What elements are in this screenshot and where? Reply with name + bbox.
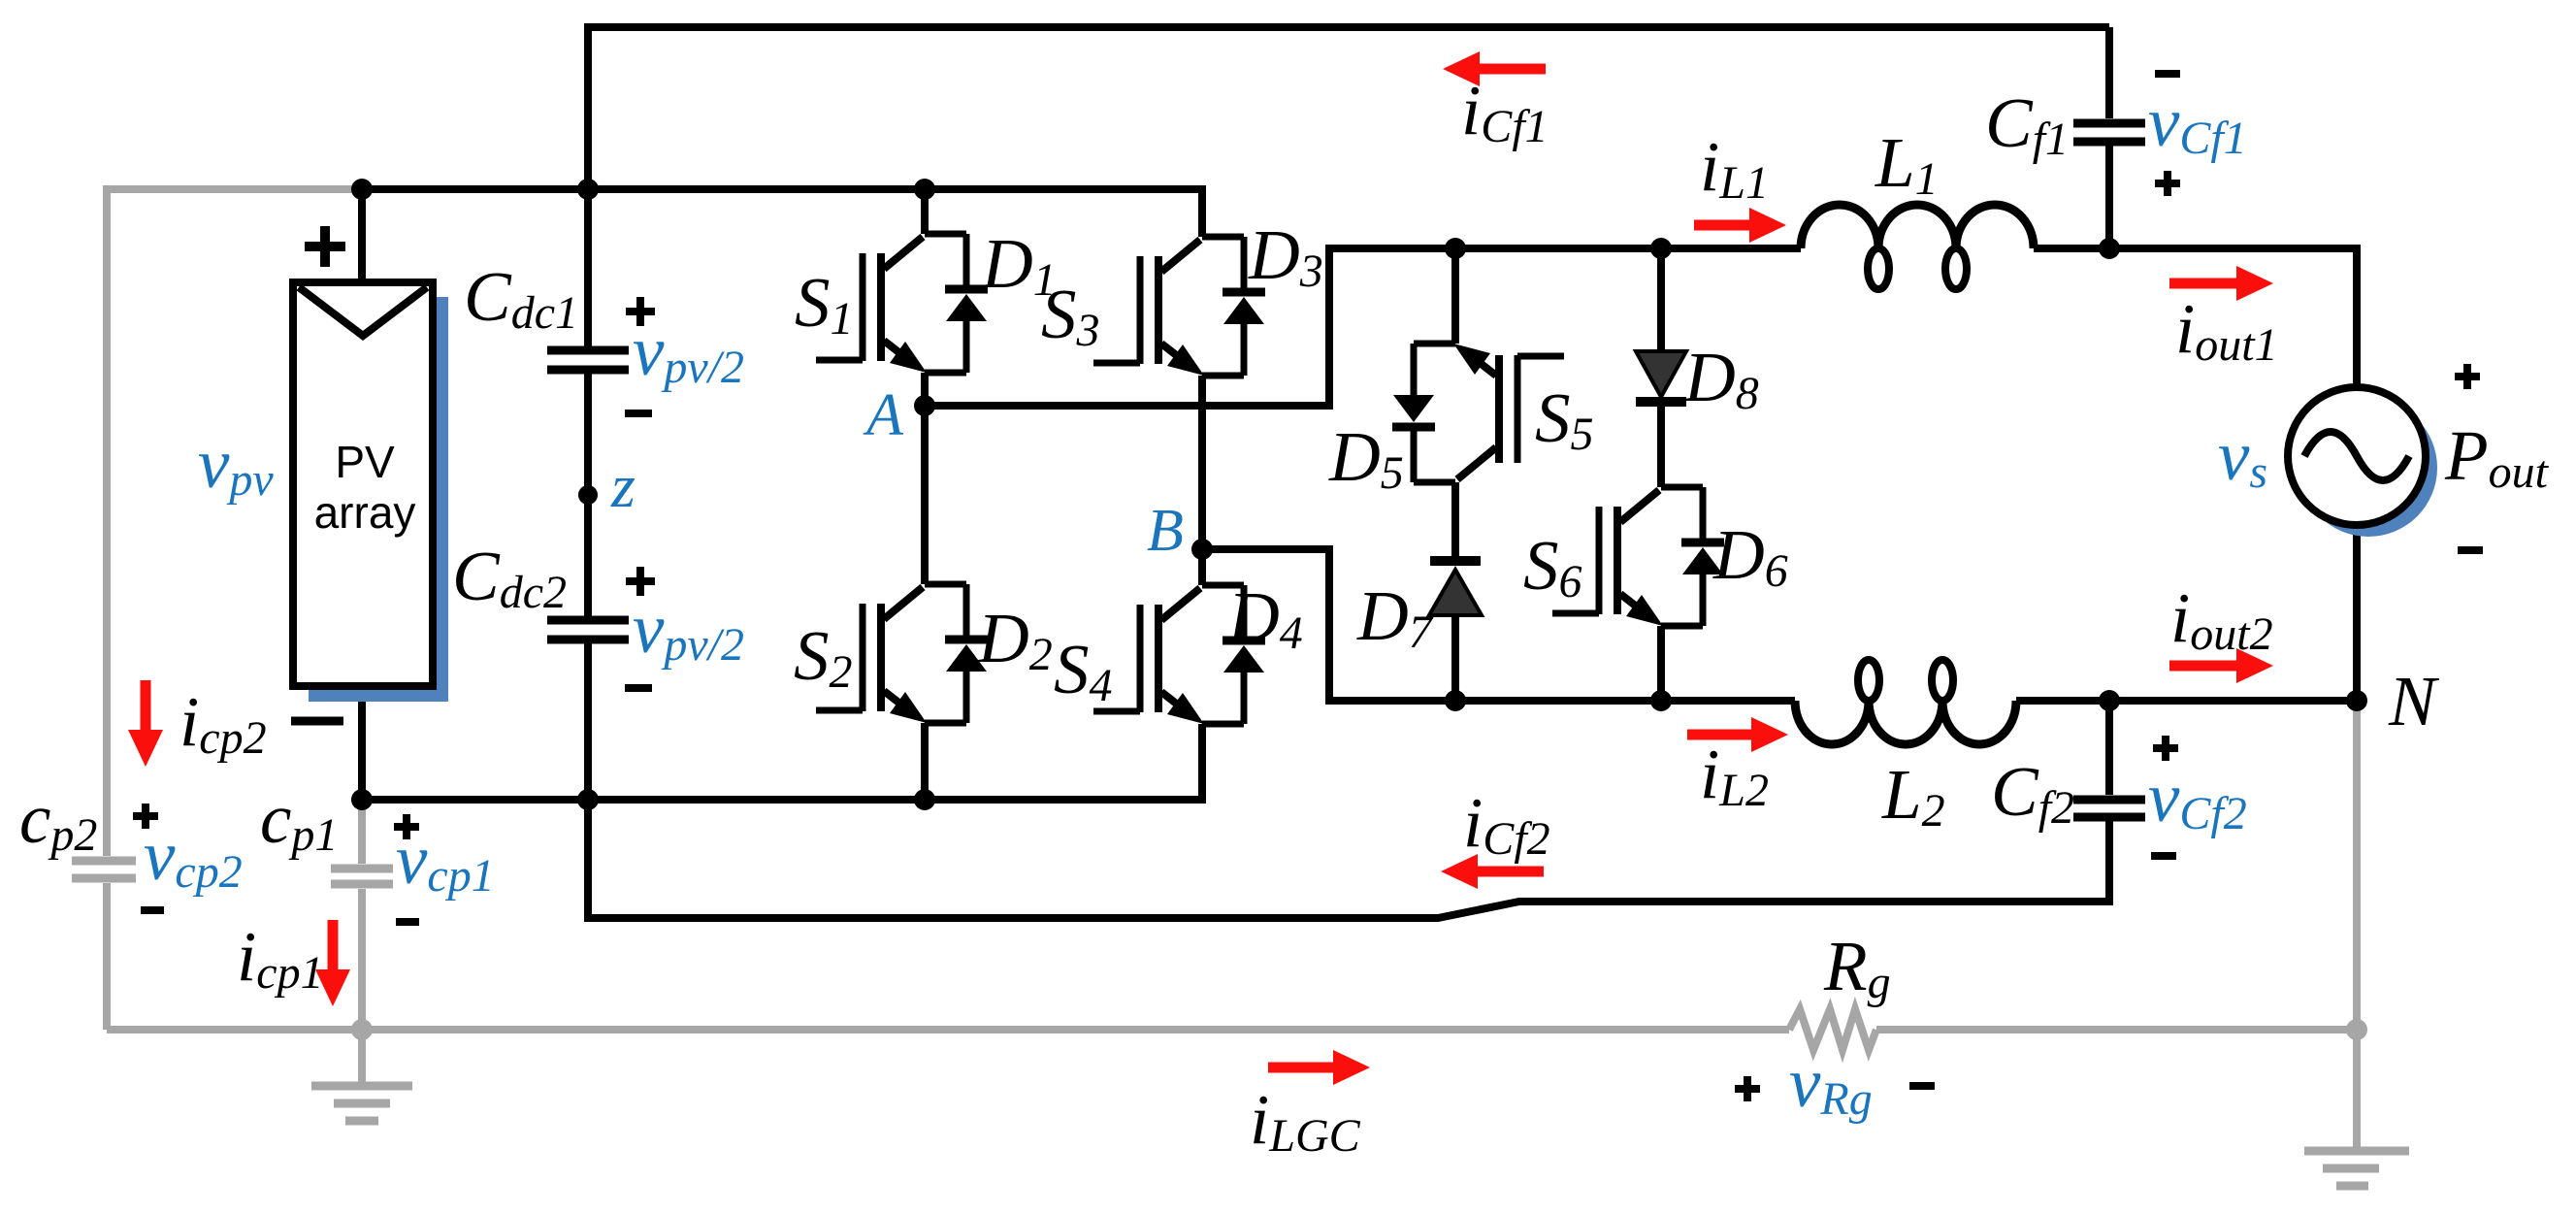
- arrow iout2: [2169, 661, 2242, 672]
- plus cp1: [394, 814, 419, 839]
- minus Cdc2: [625, 684, 652, 692]
- svg-text:iout2: iout2: [2170, 578, 2273, 660]
- svg-text:iCf1: iCf1: [1461, 71, 1549, 152]
- node N: [2346, 690, 2367, 711]
- svg-text:S4: S4: [1054, 630, 1113, 711]
- node: S5 branch bottom: [1445, 690, 1466, 711]
- node: PV- junction: [351, 789, 373, 810]
- node: DC-link bottom junction: [577, 789, 599, 810]
- gray junction below cp1: [351, 1019, 373, 1040]
- ground (right, below N): [2353, 1030, 2361, 1151]
- diode D7: [1430, 556, 1481, 566]
- svg-text:Cf1: Cf1: [1985, 83, 2069, 165]
- arrow iCf1: [1474, 64, 1546, 75]
- wire: gray cp2 lower lead: [103, 883, 111, 1030]
- inductor L1: [1801, 205, 2034, 248]
- svg-text:L2: L2: [1881, 755, 1945, 837]
- wire: S1-S2 leg: [921, 189, 929, 234]
- wire: DC-link vertical upper (to Cdc1): [584, 189, 592, 346]
- minus cp2: [141, 906, 164, 914]
- svg-text:D8: D8: [1683, 338, 1759, 419]
- node B: [1191, 539, 1213, 560]
- svg-text:L1: L1: [1875, 123, 1939, 205]
- plus Cdc2: [626, 567, 655, 596]
- PV array chevron: [299, 287, 427, 336]
- inductor L2: [1795, 701, 2016, 744]
- svg-text:Cdc1: Cdc1: [464, 257, 578, 339]
- wire: bottom return (DC- to Cf2 bottom): [588, 800, 2113, 918]
- plus Rg: [1735, 1076, 1760, 1101]
- capacitor Cdc2: [547, 620, 629, 640]
- svg-text:S3: S3: [1041, 275, 1100, 356]
- svg-text:iout1: iout1: [2175, 289, 2278, 371]
- svg-text:cp1: cp1: [260, 779, 338, 861]
- node z: [578, 485, 598, 505]
- minus Cf1: [2155, 70, 2180, 78]
- svg-text:vRg: vRg: [1789, 1043, 1873, 1125]
- svg-text:D7: D7: [1356, 576, 1434, 658]
- svg-text:PV: PV: [335, 437, 395, 487]
- plus vs: [2455, 364, 2480, 389]
- minus vs: [2458, 546, 2483, 554]
- wire: D8 to S6: [1657, 402, 1665, 487]
- svg-text:iLGC: iLGC: [1250, 1080, 1361, 1162]
- wire: S5 branch to D7: [1451, 482, 1459, 558]
- capacitor cp2: [72, 861, 136, 878]
- capacitor Cdc1: [547, 350, 629, 370]
- node: S2 bottom junction: [914, 789, 935, 810]
- wire: node B to bypass bottom: [1202, 549, 1795, 701]
- transistor S5 with diode D5 (rotated): [1392, 344, 1564, 482]
- wire: S5 branch upper: [1451, 248, 1459, 344]
- arrow icp2: [141, 680, 151, 736]
- node: DC-link top junction: [577, 179, 599, 200]
- svg-text:Cf2: Cf2: [1991, 752, 2074, 834]
- diode D8: [1636, 351, 1686, 397]
- svg-text:S6: S6: [1523, 526, 1582, 607]
- svg-text:S2: S2: [794, 616, 853, 698]
- vs source circle: [2288, 387, 2426, 525]
- plus Cf2: [2153, 736, 2178, 761]
- capacitor Cf2: [2073, 800, 2145, 817]
- svg-text:N: N: [2388, 662, 2440, 740]
- wire: PV positive lead: [358, 189, 366, 282]
- minus Rg: [1909, 1082, 1935, 1090]
- plus PV: [305, 226, 345, 267]
- svg-text:Cdc2: Cdc2: [452, 537, 567, 618]
- minus PV: [291, 717, 343, 726]
- node: S1 top junction: [914, 179, 935, 200]
- vs source shadow: [2299, 399, 2437, 537]
- svg-text:vcp2: vcp2: [144, 816, 243, 898]
- svg-text:icp1: icp1: [237, 917, 324, 999]
- node: PV+ junction: [351, 179, 373, 200]
- wire: D7 to bottom run: [1451, 615, 1459, 701]
- node: output 2 (Cf2): [2099, 690, 2120, 711]
- svg-text:D2: D2: [977, 599, 1053, 680]
- svg-text:Pout: Pout: [2444, 416, 2550, 498]
- svg-text:D4: D4: [1227, 577, 1303, 659]
- wire: PV negative lead: [358, 686, 366, 800]
- arrow iL2: [1687, 730, 1757, 740]
- svg-text:D6: D6: [1712, 515, 1788, 597]
- svg-text:vpv/2: vpv/2: [633, 312, 744, 393]
- svg-text:vCf1: vCf1: [2148, 82, 2247, 164]
- svg-text:z: z: [610, 451, 636, 520]
- wire: DC- rail: [362, 796, 1206, 804]
- svg-text:S5: S5: [1535, 378, 1594, 460]
- wire: DC+ rail: [362, 185, 1206, 193]
- wire: S3-S4 leg: [1198, 186, 1206, 237]
- wire: gray ground bus: [107, 1026, 1789, 1034]
- wire: node A to bypass top: [925, 248, 1801, 406]
- transistor S6 with diode D6: [1552, 487, 1724, 626]
- arrow iout1: [2169, 279, 2242, 289]
- wire: D8 branch upper: [1657, 248, 1665, 351]
- wire: Cf2 branch: [2105, 701, 2113, 795]
- node: D8 branch top: [1650, 238, 1672, 259]
- gray junction below N: [2346, 1019, 2367, 1040]
- wire: top run L1 right segment: [2034, 245, 2109, 252]
- wire: output top to vs: [2109, 248, 2357, 387]
- wire: top-left vertical: [584, 24, 592, 189]
- wire: gray N to ground bus: [2353, 705, 2361, 1030]
- node: output 1 (Cf1): [2099, 238, 2120, 259]
- arrow iCf2: [1472, 867, 1544, 877]
- arrow iLGC: [1268, 1063, 1339, 1073]
- arrow icp1: [328, 920, 339, 975]
- node: S5 branch top: [1445, 238, 1466, 259]
- resistor Rg: [1789, 1009, 1876, 1050]
- svg-text:icp2: icp2: [179, 682, 267, 764]
- wire: bottom run L2 right segment: [2016, 697, 2109, 705]
- wire: DC-link vertical middle (Cdc1 to Cdc2 through node z): [584, 374, 592, 616]
- transistor S3 with diode D3: [1093, 237, 1265, 376]
- wire: top rail: [584, 23, 2109, 31]
- wire: gray top run to cp2: [107, 189, 359, 856]
- svg-text:cp2: cp2: [19, 779, 97, 861]
- node: S6 branch bottom: [1650, 690, 1672, 711]
- svg-text:A: A: [863, 382, 904, 448]
- arrow iL1: [1694, 220, 1755, 231]
- wire: gray cp1 upper lead: [358, 804, 366, 864]
- PV array shadow: [309, 297, 448, 702]
- transistor S1 with diode D1: [816, 234, 988, 373]
- node A: [914, 395, 935, 416]
- svg-text:array: array: [314, 487, 416, 538]
- svg-text:vCf2: vCf2: [2148, 758, 2247, 839]
- minus Cdc1: [625, 410, 652, 417]
- minus cp1: [396, 918, 419, 926]
- wire: gray cp1 lower lead: [358, 889, 366, 1030]
- svg-text:iCf2: iCf2: [1463, 783, 1550, 865]
- vs sine: [2304, 432, 2409, 480]
- svg-text:S1: S1: [795, 263, 854, 345]
- transistor S2 with diode D2: [816, 584, 988, 723]
- capacitor Cf1: [2073, 123, 2145, 142]
- wire: Cf1 branch: [2105, 27, 2113, 118]
- minus Cf2: [2151, 852, 2176, 860]
- svg-text:vpv: vpv: [198, 424, 274, 506]
- plus Cf1: [2155, 171, 2180, 196]
- ground (left, below cp1): [358, 1030, 366, 1086]
- svg-text:vs: vs: [2218, 416, 2267, 498]
- plus cp2: [133, 804, 158, 829]
- svg-text:Rg: Rg: [1823, 927, 1891, 1008]
- capacitor cp1: [331, 869, 393, 884]
- wire: vs to node N: [2353, 525, 2361, 701]
- svg-text:vpv/2: vpv/2: [633, 589, 744, 671]
- svg-text:B: B: [1147, 498, 1184, 564]
- svg-text:D3: D3: [1248, 215, 1323, 297]
- svg-text:vcp1: vcp1: [396, 820, 495, 902]
- PV array body: [293, 282, 433, 686]
- plus Cdc1: [626, 297, 655, 326]
- transistor S4 with diode D4: [1093, 585, 1265, 724]
- wire: S6 to bottom run: [1657, 626, 1665, 701]
- wire: node N to Cf2: [2109, 697, 2357, 705]
- wire: DC-link vertical lower (Cdc2 to DC- rail): [584, 643, 592, 800]
- svg-text:iL1: iL1: [1700, 127, 1769, 209]
